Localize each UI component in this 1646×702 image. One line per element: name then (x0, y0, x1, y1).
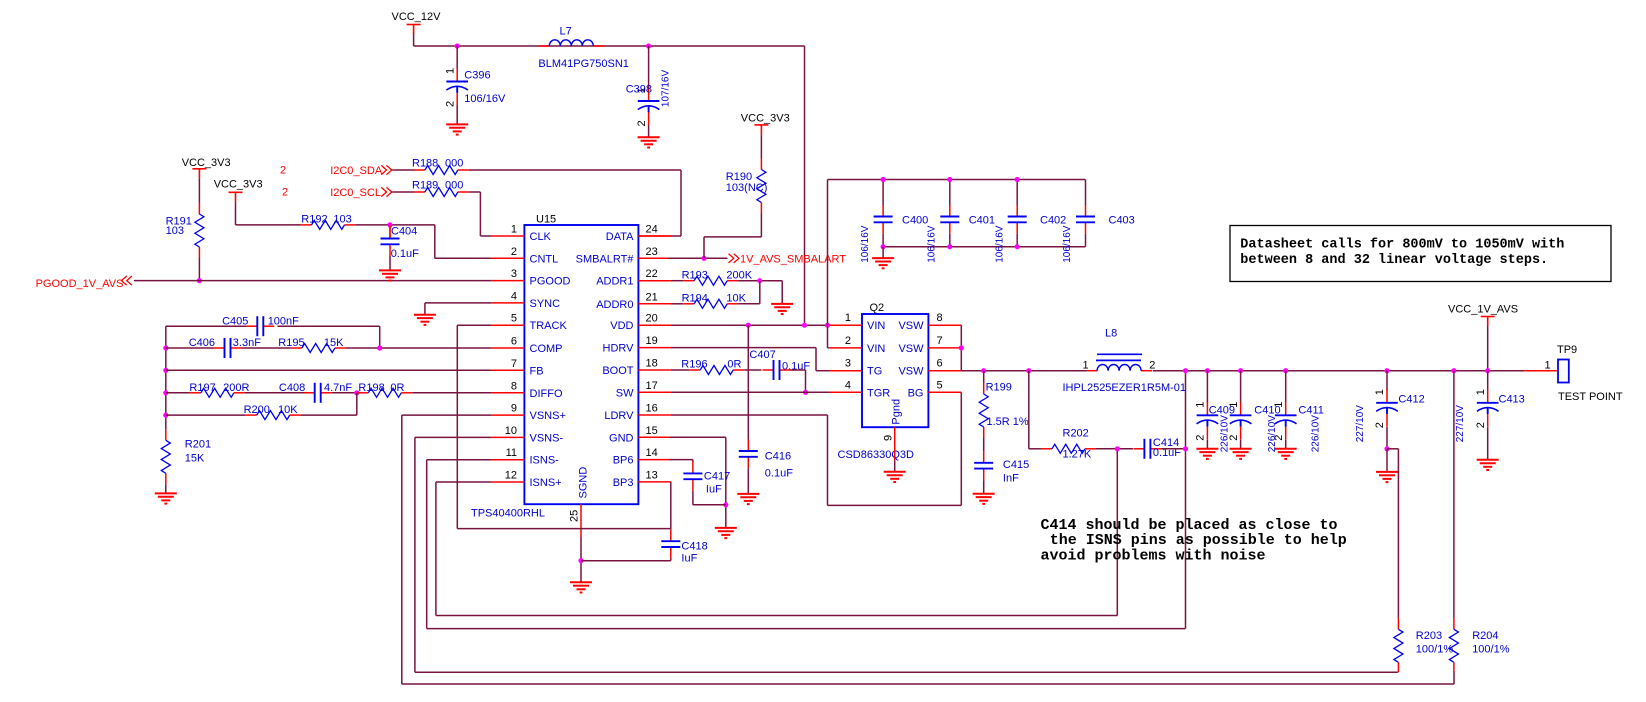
U15 pin 4 SYNC (491, 302, 524, 304)
svg-text:10K: 10K (278, 404, 298, 416)
capacitor C403 (1085, 180, 1087, 206)
junction ISNS+ tap (1115, 446, 1120, 451)
svg-text:227/10V: 227/10V (1355, 405, 1366, 443)
wire C412 node to R203 (1387, 448, 1398, 450)
svg-text:DATA: DATA (606, 231, 634, 243)
U15 pin 13 BP3 (638, 481, 671, 483)
inductor L7 (539, 40, 605, 46)
svg-text:CNTL: CNTL (530, 253, 559, 265)
capacitor C418 (670, 482, 672, 530)
svg-text:C400: C400 (902, 215, 928, 227)
svg-text:R199: R199 (986, 381, 1012, 393)
capacitor C407 (763, 360, 791, 380)
Q2 pin 8 VSW (928, 324, 961, 326)
wire left feedback bus (165, 326, 167, 429)
capacitor C409 (1205, 368, 1210, 373)
svg-text:2: 2 (1149, 359, 1155, 371)
svg-text:17: 17 (646, 380, 658, 392)
svg-text:R193: R193 (682, 270, 708, 282)
svg-text:23: 23 (646, 246, 658, 258)
svg-text:C396: C396 (464, 70, 490, 82)
ground GND15/C417 (715, 528, 737, 538)
svg-text:VCC_3V3: VCC_3V3 (214, 178, 263, 190)
svg-text:16: 16 (646, 403, 658, 415)
junction C414/ISNS- (1183, 446, 1188, 451)
svg-text:IuF: IuF (706, 483, 722, 495)
svg-text:18: 18 (646, 358, 658, 370)
svg-text:9: 9 (883, 435, 895, 441)
junction 12V drop (802, 323, 807, 328)
svg-text:7: 7 (511, 358, 517, 370)
svg-text:C398: C398 (626, 84, 652, 96)
svg-text:PGOOD_1V_AVS: PGOOD_1V_AVS (36, 278, 124, 290)
svg-text:1: 1 (1083, 359, 1089, 371)
svg-text:R203: R203 (1416, 630, 1442, 642)
capacitor C402 (1016, 180, 1018, 206)
svg-text:10: 10 (505, 425, 517, 437)
svg-text:VSW: VSW (898, 320, 924, 332)
svg-text:VCC_3V3: VCC_3V3 (741, 112, 790, 124)
svg-text:2: 2 (280, 165, 286, 177)
svg-text:3.3nF: 3.3nF (233, 337, 261, 349)
junction C404 (387, 222, 392, 227)
capacitor C416 (747, 325, 749, 439)
ground C411 (1275, 449, 1297, 459)
svg-text:C401: C401 (969, 215, 995, 227)
junction C412 gnd node (1384, 446, 1389, 451)
svg-text:0.1uF: 0.1uF (391, 248, 419, 260)
svg-text:VSNS-: VSNS- (530, 432, 564, 444)
U15 pin 6 COMP (491, 347, 524, 349)
U15 pin 21 ADDR0 (638, 303, 671, 305)
svg-text:103: 103 (333, 214, 351, 226)
svg-text:C415: C415 (1003, 459, 1029, 471)
op-amp U15 TPS40400RHL body (524, 225, 638, 504)
svg-text:C402: C402 (1040, 215, 1066, 227)
note box datasheet (1230, 226, 1611, 282)
svg-text:4: 4 (845, 379, 851, 391)
svg-text:TP9: TP9 (1557, 344, 1577, 356)
svg-text:19: 19 (646, 335, 658, 347)
svg-text:4: 4 (511, 290, 517, 302)
svg-text:22: 22 (646, 268, 658, 280)
junction FB row (163, 368, 168, 373)
ground SGND (570, 582, 592, 592)
svg-text:VSW: VSW (898, 366, 924, 378)
ground C398 (638, 137, 660, 147)
Q2 pin 1 VIN (829, 324, 862, 326)
svg-text:14: 14 (646, 447, 658, 459)
svg-text:R194: R194 (682, 293, 708, 305)
wire VOUT rail (1153, 370, 1524, 372)
svg-text:BOOT: BOOT (602, 365, 633, 377)
resistor R196 (671, 369, 689, 371)
svg-text:106/16V: 106/16V (464, 93, 506, 105)
wire VDD row to Q2 VIN (671, 324, 829, 326)
svg-text:SW: SW (616, 387, 634, 399)
svg-text:C411: C411 (1298, 404, 1323, 416)
resistor R190 (757, 159, 766, 214)
svg-text:VCC_1V_AVS: VCC_1V_AVS (1448, 304, 1518, 316)
junction bank bottom (881, 244, 886, 249)
U15 pin 3 PGOOD (491, 280, 524, 282)
resistor R203 (1397, 618, 1399, 629)
svg-text:8: 8 (511, 380, 517, 392)
svg-text:103(NC): 103(NC) (726, 182, 768, 194)
capacitor C401 (949, 180, 951, 206)
Q2 pin 7 VSW (928, 347, 961, 349)
junction C396 tap (455, 43, 460, 48)
capacitor C396 (456, 46, 458, 69)
wire VIN pin2 drop (827, 325, 829, 348)
svg-text:C417: C417 (704, 470, 730, 482)
capacitor C413 (1487, 371, 1489, 391)
ground C413 (1477, 460, 1499, 470)
capacitor C412 (1384, 368, 1389, 373)
wire BOOT cap to SW (805, 370, 807, 392)
junction bank top (1015, 177, 1020, 182)
svg-text:12: 12 (505, 470, 517, 482)
resistor R194 (671, 303, 683, 305)
svg-text:C404: C404 (391, 226, 417, 238)
svg-text:avoid problems with noise: avoid problems with noise (1041, 547, 1266, 564)
svg-text:ISNS+: ISNS+ (530, 477, 562, 489)
U15 pin 10 VSNS- (491, 436, 524, 438)
U15 pin 7 FB (491, 369, 524, 371)
U15 pin 15 GND (638, 436, 671, 438)
wire ISNS+ pin12 loop (436, 481, 492, 483)
svg-text:2: 2 (511, 246, 517, 258)
svg-text:7: 7 (937, 335, 943, 347)
capacitor C400 (882, 180, 884, 206)
svg-text:VIN: VIN (867, 343, 885, 355)
svg-text:1: 1 (511, 224, 517, 236)
svg-text:BP6: BP6 (613, 455, 634, 467)
svg-text:106/16V: 106/16V (860, 225, 871, 263)
resistor R202 (1028, 371, 1030, 449)
wire TRACK pin5 loop (457, 324, 491, 326)
resistor R195 (291, 344, 346, 353)
resistor R198 (357, 388, 412, 397)
test point TP9 (1524, 370, 1558, 372)
svg-text:PGOOD: PGOOD (530, 276, 571, 288)
svg-text:1.27K: 1.27K (1063, 449, 1092, 461)
ground C396 (446, 124, 468, 134)
wire FB row (166, 369, 492, 371)
wire R200 up to R198 node (356, 393, 358, 415)
svg-text:C412: C412 (1398, 394, 1424, 406)
svg-text:C416: C416 (765, 451, 791, 463)
svg-text:R196: R196 (681, 359, 707, 371)
svg-text:FB: FB (530, 365, 544, 377)
Q2 pin 3 TG (829, 370, 862, 372)
svg-text:C413: C413 (1499, 394, 1525, 406)
svg-text:226/10V: 226/10V (1267, 415, 1278, 453)
U15 pin 12 ISNS+ (491, 481, 524, 483)
svg-text:106/16V: 106/16V (994, 225, 1005, 263)
svg-text:BP3: BP3 (613, 477, 634, 489)
svg-text:15K: 15K (185, 453, 205, 465)
junction R191/PGOOD (197, 278, 202, 283)
transistor Q2 CSD86330Q3D body (862, 314, 928, 427)
junction C408/R198/R200 (354, 390, 359, 395)
svg-text:1: 1 (845, 312, 851, 324)
svg-text:R198: R198 (358, 382, 384, 394)
svg-text:L7: L7 (560, 25, 572, 37)
svg-text:InF: InF (1003, 473, 1019, 485)
Q2 pin 4 TGR (829, 391, 862, 393)
svg-text:SYNC: SYNC (530, 298, 561, 310)
svg-text:100nF: 100nF (268, 315, 299, 327)
capacitor C404 (389, 225, 391, 239)
wire COMP row (166, 347, 214, 349)
U15 pin 2 CNTL (491, 257, 524, 259)
svg-text:0.1uF: 0.1uF (765, 467, 793, 479)
ground C409 (1196, 449, 1218, 459)
ground R193/R194 (771, 304, 793, 314)
junction bank bottom (1015, 244, 1020, 249)
svg-text:LDRV: LDRV (604, 410, 634, 422)
wire R192 to CNTL (356, 224, 435, 226)
svg-text:2: 2 (282, 187, 288, 199)
svg-text:GND: GND (609, 432, 634, 444)
capacitor C406 (214, 338, 242, 358)
capacitor C417 (670, 459, 693, 461)
svg-text:5: 5 (937, 379, 943, 391)
svg-text:R201: R201 (185, 439, 211, 451)
svg-text:R204: R204 (1472, 630, 1498, 642)
wire GND pin15 to ground (670, 436, 726, 438)
wire cap bank top rail (828, 179, 1086, 181)
svg-text:TRACK: TRACK (530, 320, 568, 332)
ground C416 (737, 494, 759, 504)
resistor R201 (161, 429, 170, 484)
svg-text:VDD: VDD (610, 320, 633, 332)
junction R200 row (163, 413, 168, 418)
resistor R200 (166, 414, 246, 416)
svg-text:R202: R202 (1063, 428, 1089, 440)
U15 pin 5 TRACK (491, 324, 524, 326)
junction VSW pin7 (959, 345, 964, 350)
junction bank top (881, 177, 886, 182)
svg-text:226/10V: 226/10V (1219, 415, 1230, 453)
svg-text:SMBALRT#: SMBALRT# (576, 253, 635, 265)
capacitor C408 (304, 383, 332, 403)
capacitor C398 (648, 46, 650, 89)
Q2 pin 6 VSW (928, 370, 961, 372)
inductor L8 (1087, 365, 1153, 371)
svg-text:IHPL2525EZER1R5M-01: IHPL2525EZER1R5M-01 (1063, 382, 1187, 394)
junction R202 tap (1026, 368, 1031, 373)
junction bank top (947, 177, 952, 182)
wire 12V rail drop to VDD (804, 46, 806, 325)
svg-text:C418: C418 (681, 540, 707, 552)
svg-text:I2C0_SCL: I2C0_SCL (330, 187, 381, 199)
svg-text:25: 25 (569, 510, 581, 522)
svg-text:226/10V: 226/10V (1310, 415, 1321, 453)
ground C410 (1230, 449, 1252, 459)
U15 pin 9 VSNS+ (491, 414, 524, 416)
svg-text:C403: C403 (1109, 215, 1135, 227)
U15 pin 19 HDRV (638, 347, 671, 349)
junction C407/SW (803, 390, 808, 395)
junction SGND/C418 (578, 558, 583, 563)
svg-text:CLK: CLK (530, 231, 552, 243)
junction cap bank / VIN2 (825, 323, 830, 328)
svg-text:Q2: Q2 (870, 302, 885, 314)
svg-text:ISNS-: ISNS- (530, 455, 560, 467)
junction C405/R195 (377, 345, 382, 350)
svg-text:21: 21 (646, 291, 658, 303)
ground cap bank (882, 247, 884, 258)
junction C398 tap (646, 43, 651, 48)
svg-text:C406: C406 (189, 337, 215, 349)
U15 pin 23 SMBALRT# (638, 257, 671, 259)
junction ISNS- riser (1183, 368, 1188, 373)
junction COMP row (163, 345, 168, 350)
svg-text:6: 6 (937, 358, 943, 370)
svg-text:3: 3 (845, 358, 851, 370)
Q2 pin 5 BG (928, 391, 961, 393)
U15 pin 24 DATA (638, 235, 671, 237)
svg-text:Datasheet calls for 800mV to 1: Datasheet calls for 800mV to 1050mV with (1240, 238, 1564, 253)
svg-text:15: 15 (646, 425, 658, 437)
svg-text:Pgnd: Pgnd (891, 399, 903, 425)
resistor R189 (414, 188, 469, 197)
svg-text:2: 2 (845, 335, 851, 347)
U15 pin 22 ADDR1 (638, 280, 671, 282)
U15 pin 8 DIFFO (491, 392, 524, 394)
svg-text:VIN: VIN (867, 320, 885, 332)
svg-text:COMP: COMP (530, 343, 563, 355)
wire LDRV to BG (671, 414, 828, 416)
resistor R204 (1451, 368, 1456, 373)
U15 pin 20 VDD (638, 324, 671, 326)
capacitor C410 (1238, 368, 1243, 373)
svg-text:R197: R197 (189, 382, 215, 394)
svg-text:TPS40400RHL: TPS40400RHL (471, 508, 545, 520)
svg-text:ADDR1: ADDR1 (596, 276, 633, 288)
capacitor C411 (1283, 368, 1288, 373)
svg-text:R192: R192 (301, 214, 327, 226)
svg-text:BLM41PG750SN1: BLM41PG750SN1 (538, 58, 629, 70)
svg-text:000: 000 (445, 180, 463, 192)
svg-text:8: 8 (937, 312, 943, 324)
wire 12V top rail (414, 45, 805, 47)
svg-text:C409: C409 (1209, 404, 1235, 416)
wire SW node to L8 (961, 370, 1086, 372)
wire cap bank bottom rail (883, 246, 1085, 248)
U15 pin 14 BP6 (638, 459, 671, 461)
wire ADDR to ground (781, 281, 783, 304)
junction C417/GND (723, 502, 728, 507)
net 1V_AVS_SMBALART (668, 257, 727, 259)
svg-text:between 8 and 32 linear voltag: between 8 and 32 linear voltage steps. (1240, 253, 1548, 268)
svg-text:000: 000 (445, 158, 463, 170)
Q2 pin 2 VIN (829, 347, 862, 349)
wire SCL to CLK pin1 (469, 191, 481, 193)
svg-text:15K: 15K (324, 337, 344, 349)
junction R193/R194 (757, 278, 762, 283)
ground C412 (1376, 472, 1398, 482)
resistor R191 (195, 203, 204, 258)
wire SDA to DATA pin24 (469, 169, 681, 171)
resistor R193 (671, 280, 683, 282)
svg-text:VCC_12V: VCC_12V (392, 11, 442, 23)
svg-text:13: 13 (646, 469, 658, 481)
svg-text:0R: 0R (727, 359, 741, 371)
svg-text:C405: C405 (222, 315, 248, 327)
svg-text:R189: R189 (412, 180, 438, 192)
svg-text:VSW: VSW (898, 343, 924, 355)
junction bank bottom (947, 244, 952, 249)
svg-text:SGND: SGND (578, 467, 590, 499)
svg-text:1V_AVS_SMBALART: 1V_AVS_SMBALART (740, 254, 846, 266)
svg-text:U15: U15 (536, 214, 556, 226)
wire C405 loop top (166, 325, 247, 327)
svg-text:106/16V: 106/16V (927, 225, 938, 263)
junction R199 tap (981, 368, 986, 373)
svg-text:VSNS+: VSNS+ (530, 410, 566, 422)
svg-text:100/1%: 100/1% (1472, 643, 1510, 655)
wire SW row to TGR (671, 391, 829, 393)
U15 pin 18 BOOT (638, 369, 671, 371)
svg-text:BG: BG (908, 387, 924, 399)
U15 pin 16 LDRV (638, 414, 671, 416)
junction SMBALART/R190 (701, 256, 706, 261)
capacitor C415 (974, 451, 993, 480)
svg-text:3: 3 (511, 268, 517, 280)
Q2 pin 9 Pgnd (894, 427, 896, 460)
svg-text:C410: C410 (1254, 404, 1280, 416)
ground C404 (379, 270, 401, 280)
junction C416 tap (746, 323, 751, 328)
ground R201 (155, 493, 177, 503)
svg-text:200K: 200K (726, 270, 752, 282)
U15 pin 4 SYNC to ground (425, 302, 492, 304)
svg-text:9: 9 (511, 403, 517, 415)
svg-text:DIFFO: DIFFO (530, 388, 563, 400)
capacitor C405 (246, 316, 274, 336)
svg-text:HDRV: HDRV (603, 343, 635, 355)
ground Pgnd (884, 472, 906, 482)
U15 pin 11 ISNS- (491, 459, 524, 461)
U15 pin 1 CLK (491, 235, 524, 237)
svg-text:CSD86330Q3D: CSD86330Q3D (838, 449, 914, 461)
wire VCC_12V to rail (413, 34, 415, 47)
svg-text:IuF: IuF (681, 553, 697, 565)
ground C415 (973, 494, 995, 504)
svg-text:TGR: TGR (867, 387, 890, 399)
svg-text:R195: R195 (278, 337, 304, 349)
svg-text:C408: C408 (279, 382, 305, 394)
capacitor C414 (1133, 439, 1161, 459)
junction DIFFO row (163, 390, 168, 395)
svg-text:6: 6 (511, 336, 517, 348)
svg-text:0R: 0R (390, 382, 404, 394)
svg-text:5: 5 (511, 313, 517, 325)
wire VSNS+ pin9 loop (402, 414, 492, 416)
svg-text:100/1%: 100/1% (1416, 643, 1454, 655)
svg-text:103: 103 (166, 225, 184, 237)
svg-text:TEST POINT: TEST POINT (1558, 391, 1623, 403)
svg-text:1.5R 1%: 1.5R 1% (987, 416, 1029, 428)
resistor R188 (414, 166, 469, 175)
resistor R197 (166, 392, 190, 394)
svg-text:1: 1 (1545, 359, 1551, 371)
wire VSNS- pin10 loop (415, 436, 492, 438)
svg-text:24: 24 (646, 224, 658, 236)
